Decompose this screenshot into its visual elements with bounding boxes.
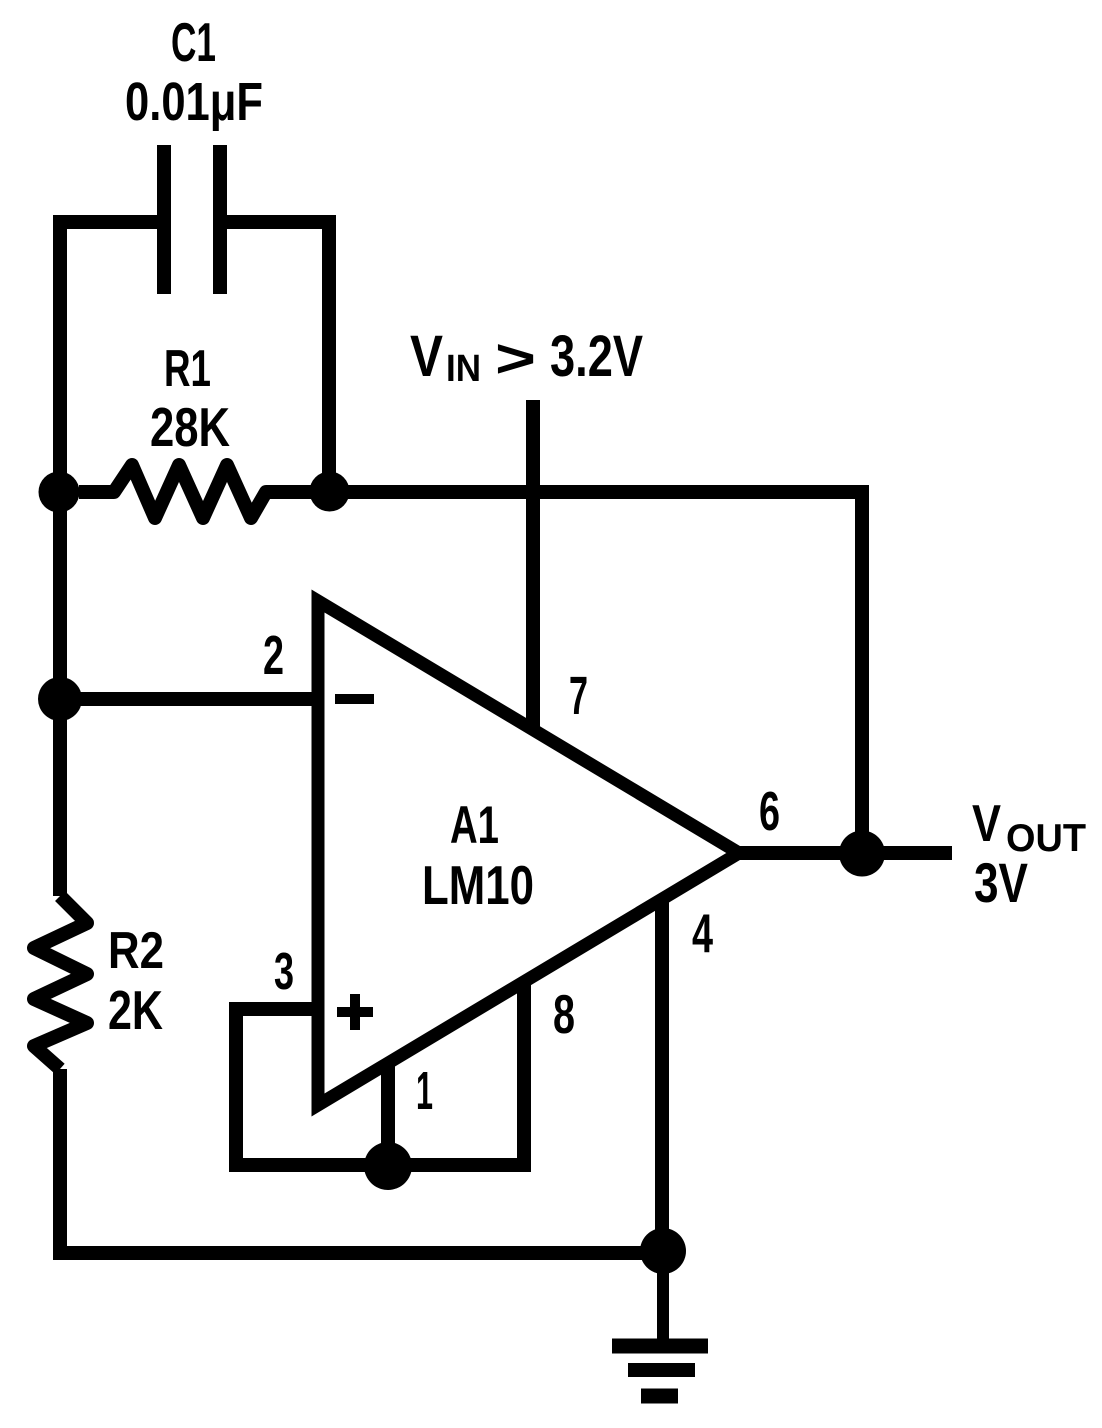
minus input symbol — [335, 694, 374, 704]
wire: pin 3 stub and bootstrap loop to pin 8 — [236, 982, 524, 1165]
svg-text:0.01μF: 0.01μF — [125, 72, 263, 132]
wire: VIN vertical drop to pin 7 — [526, 400, 540, 731]
wire: ground stem — [657, 1251, 669, 1339]
node: ground junction — [640, 1228, 686, 1274]
svg-text:R1: R1 — [164, 340, 211, 398]
svg-text:LM10: LM10 — [422, 854, 534, 916]
label VOUT 3V — [972, 795, 1086, 914]
svg-text:3.2V: 3.2V — [550, 324, 643, 389]
wire: left rail from node A down through R2 to bottom rail — [53, 492, 67, 896]
node: inverting input junction — [38, 677, 82, 721]
wire: output from pin 6 — [739, 846, 952, 860]
node: R1 left junction — [39, 472, 80, 513]
ground symbol — [612, 1346, 708, 1396]
wire: main horizontal rail from node B to right corner, down to output node — [329, 492, 862, 853]
op-amp A1 LM10 (triangle) — [318, 601, 739, 1105]
wire: pin 1 drop to loop — [381, 1062, 395, 1166]
resistor R1 28K (horizontal zigzag) — [79, 465, 330, 518]
svg-text:4: 4 — [692, 902, 713, 964]
svg-text:1: 1 — [416, 1061, 433, 1121]
node: pin1 loop junction — [364, 1142, 412, 1190]
capacitor C1 (plates) — [164, 145, 220, 294]
svg-text:R2: R2 — [108, 922, 164, 980]
svg-text:V: V — [972, 795, 1001, 853]
svg-text:A1: A1 — [450, 796, 499, 855]
svg-text:3V: 3V — [974, 851, 1028, 914]
wire: pin 4 drop to ground rail — [655, 901, 669, 1253]
wire: pin 2 input from node C — [58, 692, 318, 706]
label VIN > 3.2V — [410, 324, 643, 390]
svg-text:28K: 28K — [150, 396, 230, 458]
svg-text:6: 6 — [759, 780, 780, 842]
node: output junction — [839, 831, 885, 877]
svg-text:7: 7 — [569, 666, 588, 726]
wire: bottom rail to ground node — [60, 1069, 663, 1253]
svg-text:C1: C1 — [171, 11, 216, 73]
svg-text:IN: IN — [446, 348, 481, 390]
svg-text:8: 8 — [553, 983, 575, 1045]
plus input symbol — [337, 994, 373, 1030]
wire: top-right loop right side (C1 right plate to node B) — [220, 222, 329, 492]
node: R1 right junction — [310, 472, 350, 512]
svg-text:2K: 2K — [108, 979, 163, 1041]
svg-text:2: 2 — [263, 624, 284, 686]
svg-text:V: V — [410, 324, 443, 389]
svg-text:>: > — [495, 327, 536, 389]
wire: top-left loop left side (node A to C1 left plate) — [60, 222, 164, 492]
svg-text:3: 3 — [274, 943, 294, 1001]
resistor R2 2K (vertical zigzag) — [34, 896, 87, 1069]
